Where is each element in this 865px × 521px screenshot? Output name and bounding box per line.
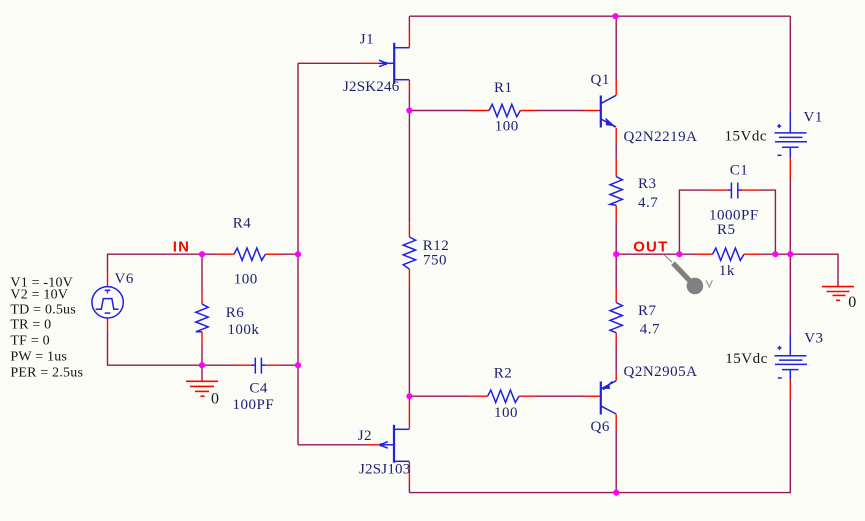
svg-text:J2SK246: J2SK246 — [343, 79, 400, 95]
wire V6 top — [108, 254, 203, 271]
svg-text:Q2N2905A: Q2N2905A — [624, 364, 698, 380]
resistor R6 — [196, 293, 208, 345]
svg-text:J1: J1 — [360, 31, 374, 47]
svg-text:0: 0 — [211, 391, 220, 408]
junction dot left column bottom — [295, 362, 301, 368]
capacitor C4 — [235, 358, 282, 374]
parameter text block — [10, 276, 83, 381]
svg-text:R4: R4 — [233, 216, 252, 232]
ground right — [822, 287, 854, 301]
wire V3 bottom to bottom rail — [409, 398, 790, 492]
wire R1 row — [409, 110, 469, 112]
transistor Q1 pin stubs — [585, 80, 617, 143]
wire top rail — [409, 15, 790, 17]
battery V3 — [775, 335, 808, 399]
transistor Q6 symbol — [601, 381, 616, 415]
wire C1 loop left vertical — [679, 190, 711, 254]
wire V6 bottom — [108, 330, 203, 365]
svg-text:R6: R6 — [226, 305, 245, 321]
capacitor C1 — [712, 183, 760, 199]
wire R5 right to supply mid — [762, 253, 790, 255]
svg-text:Q1: Q1 — [591, 72, 610, 88]
svg-text:4.7: 4.7 — [638, 195, 658, 211]
battery V1 — [775, 111, 808, 178]
svg-text:100: 100 — [494, 405, 518, 421]
svg-text:Q6: Q6 — [591, 419, 610, 435]
svg-text:V6: V6 — [115, 271, 134, 287]
JFET J1 symbol — [378, 43, 409, 84]
junction dot supply mid — [787, 251, 793, 257]
wire mid row right to ground corner — [790, 254, 838, 286]
resistor R4 — [218, 248, 281, 260]
wire R6 top — [201, 254, 203, 292]
svg-text:1k: 1k — [719, 263, 735, 279]
wire V1 bottom to mid node — [789, 179, 791, 255]
svg-text:100: 100 — [495, 119, 519, 135]
svg-text:15Vdc: 15Vdc — [725, 129, 768, 145]
svg-text:TR = 0: TR = 0 — [10, 318, 51, 333]
svg-text:100: 100 — [234, 271, 258, 287]
svg-text:V2 = 10V: V2 = 10V — [10, 288, 68, 303]
junction dot R1 row — [406, 107, 412, 113]
wire left column vertical — [297, 63, 299, 445]
resistor R5 — [696, 248, 762, 260]
junction dot loop right — [772, 251, 778, 257]
resistor R2 — [469, 390, 536, 402]
source V6 pin stubs — [107, 271, 109, 330]
wire J2 gate row — [298, 444, 367, 446]
svg-text:750: 750 — [423, 253, 447, 269]
junction dot loop left — [676, 251, 682, 257]
wire Q1 emitter to R3 — [615, 142, 617, 159]
svg-text:R5: R5 — [717, 222, 736, 238]
svg-text:J2SJ103: J2SJ103 — [359, 462, 410, 478]
wire R2 to Q6 base — [536, 395, 585, 397]
wire R1 to Q1 base — [536, 110, 584, 112]
svg-text:R1: R1 — [494, 80, 513, 96]
svg-text:IN: IN — [173, 238, 190, 255]
svg-text:1000PF: 1000PF — [709, 208, 759, 224]
resistor R1 — [469, 104, 536, 116]
wire Q6 collector to bottom rail — [615, 429, 617, 493]
resistor R3 — [610, 159, 622, 222]
ground left — [186, 381, 218, 396]
resistor R12 — [403, 224, 415, 286]
wire C1 loop right vertical — [760, 190, 776, 254]
wire J2 source to bottom rail — [408, 482, 410, 493]
wire J1 drain vertical — [408, 16, 410, 30]
wire R6 bottom — [201, 344, 203, 365]
JFET J2 symbol — [380, 425, 410, 463]
svg-text:R3: R3 — [638, 176, 657, 192]
svg-text:R2: R2 — [494, 366, 513, 382]
svg-text:100PF: 100PF — [233, 397, 275, 413]
svg-text:OUT: OUT — [633, 238, 668, 255]
svg-text:Q2N2219A: Q2N2219A — [624, 129, 698, 145]
svg-text:TF = 0: TF = 0 — [10, 334, 49, 349]
svg-text:15Vdc: 15Vdc — [725, 351, 768, 367]
junction dot ground left — [199, 362, 205, 368]
wire R4 to left column — [281, 253, 298, 255]
wire IN node to R4 — [202, 253, 218, 255]
JFET J2 pin stubs — [367, 398, 409, 482]
wire J1 source to R1 junction and R12 — [408, 94, 410, 224]
junction dot top rail — [612, 13, 618, 19]
probe marker — [664, 255, 712, 295]
wire V3 top — [789, 254, 791, 334]
svg-text:TD = 0.5us: TD = 0.5us — [10, 303, 76, 318]
transistor Q1 symbol — [601, 95, 616, 127]
wire J1 gate row — [298, 62, 362, 64]
wire Q1 collector to top rail — [615, 16, 617, 79]
svg-text:PER = 2.5us: PER = 2.5us — [10, 366, 83, 381]
junction dot bottom rail — [613, 490, 619, 496]
source V6 circle — [92, 287, 123, 318]
svg-text:4.7: 4.7 — [640, 322, 660, 338]
junction dot IN — [199, 251, 205, 257]
junction dot R4 right — [295, 251, 301, 257]
wire R3 to OUT node — [615, 221, 617, 287]
wire OUT node to loop left — [616, 253, 695, 255]
svg-text:PW = 1us: PW = 1us — [10, 350, 67, 365]
svg-text:J2: J2 — [358, 428, 372, 444]
JFET J1 pin stubs — [362, 30, 409, 94]
svg-text:C4: C4 — [249, 380, 268, 396]
wire C4 right to left column — [282, 364, 298, 366]
wire ground stub left — [201, 365, 203, 380]
svg-text:C1: C1 — [730, 163, 749, 179]
resistor R7 — [610, 288, 622, 346]
svg-text:R7: R7 — [638, 303, 657, 319]
wire R12 bottom to R2 junction — [408, 286, 410, 398]
wire bottom-left rail R6 to C4 — [202, 364, 235, 366]
svg-text:100k: 100k — [227, 322, 259, 338]
wire V1 top — [789, 16, 791, 111]
junction dot OUT — [613, 251, 619, 257]
svg-text:V3: V3 — [804, 331, 823, 347]
svg-text:V1: V1 — [804, 110, 823, 126]
svg-text:0: 0 — [848, 294, 857, 311]
wire R2 row — [409, 395, 469, 397]
svg-text:R12: R12 — [423, 238, 450, 254]
wire R7 to Q6 emitter — [615, 346, 617, 374]
junction dot R2 row — [406, 393, 412, 399]
transistor Q6 pin stubs — [585, 373, 617, 429]
